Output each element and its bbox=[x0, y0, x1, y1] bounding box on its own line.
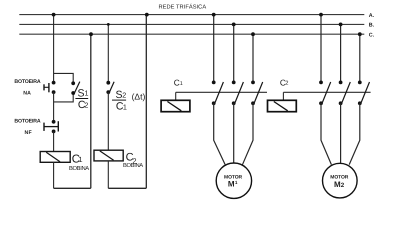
svg-text:BOBINA: BOBINA bbox=[123, 162, 143, 169]
label contactor C1 bbox=[174, 77, 183, 87]
pushbutton NA actuator bbox=[44, 83, 49, 92]
node K2 pole A on bus bbox=[319, 13, 323, 17]
wire K2 pole B to motor bbox=[340, 103, 342, 163]
label BOTOEIRA NF bbox=[14, 119, 40, 136]
node loop1 return on C bbox=[89, 32, 93, 36]
wire loop1 feed from phase A bbox=[53, 15, 55, 83]
phase line C bbox=[19, 33, 364, 35]
node NF top bbox=[52, 120, 56, 124]
svg-text:1: 1 bbox=[78, 155, 82, 164]
node K2 pole C on bus bbox=[358, 32, 362, 36]
wire K2 pole C top bbox=[359, 34, 361, 82]
wire loop1 return to phase C bbox=[90, 34, 92, 188]
coil C1 box bbox=[40, 152, 70, 163]
wire K1 pole A to motor bbox=[214, 103, 226, 165]
wire K1 pole C to motor bbox=[242, 103, 253, 165]
wire NA to NF bbox=[53, 92, 55, 122]
svg-text:2: 2 bbox=[341, 182, 345, 189]
node K1 pole B on bus bbox=[232, 23, 236, 27]
wire S1 branch top bbox=[54, 73, 74, 83]
label MOTOR M1 bbox=[224, 174, 243, 188]
node loop2 return on A bbox=[145, 13, 149, 17]
contact S1 bbox=[71, 81, 80, 95]
contact K2 pole B bbox=[339, 81, 351, 106]
contactor C1 mechanism box bbox=[161, 100, 190, 111]
label C2 BOBINA bbox=[123, 151, 143, 169]
linkage stub C2 bbox=[282, 92, 284, 100]
node loop2 feed on B bbox=[107, 23, 110, 26]
node NA top bbox=[52, 81, 56, 85]
node K2 pole B on bus bbox=[339, 23, 343, 27]
svg-text:M: M bbox=[228, 180, 235, 189]
svg-text:NF: NF bbox=[25, 130, 32, 136]
label BOTOEIRA NA bbox=[14, 79, 40, 97]
svg-text:2: 2 bbox=[84, 101, 88, 110]
wire NF to coil C1 bbox=[53, 131, 55, 151]
contactor C2 mechanism box bbox=[268, 100, 297, 111]
wire loop1 bottom bbox=[54, 187, 91, 189]
pushbutton NF bridge bbox=[44, 121, 58, 131]
contact S2 bbox=[106, 81, 114, 94]
node K1 pole C on bus bbox=[251, 32, 255, 36]
motor M2 bbox=[323, 163, 358, 198]
label S1 over C2 bbox=[75, 87, 88, 111]
wire K2 pole B top bbox=[340, 24, 342, 82]
contact K1 pole C bbox=[251, 81, 263, 106]
node loop1 feed on A bbox=[52, 13, 56, 17]
motor M1 bbox=[216, 163, 251, 198]
svg-text:C.: C. bbox=[369, 32, 375, 38]
svg-text:NA: NA bbox=[23, 90, 31, 96]
wire K2 pole A top bbox=[320, 15, 322, 83]
node NA bottom bbox=[52, 90, 56, 94]
svg-text:(Δt): (Δt) bbox=[132, 92, 146, 102]
svg-text:1: 1 bbox=[235, 180, 238, 185]
wire K2 pole C to motor bbox=[349, 103, 360, 164]
svg-text:1: 1 bbox=[85, 89, 89, 98]
label C1 BOBINA bbox=[69, 154, 89, 172]
wire coil C1 to bottom bbox=[53, 162, 55, 188]
label S2 over C1 bbox=[112, 89, 127, 113]
linkage stub C1 bbox=[175, 92, 177, 100]
svg-text:BOTOEIRA: BOTOEIRA bbox=[14, 79, 40, 85]
svg-text:1: 1 bbox=[180, 81, 183, 87]
node K1 pole A on bus bbox=[212, 13, 216, 17]
svg-text:S: S bbox=[78, 87, 85, 99]
contact K1 pole A bbox=[212, 81, 224, 106]
contact K2 pole A bbox=[319, 81, 331, 106]
wire K2 pole A to motor bbox=[321, 103, 331, 164]
wire K1 pole B top bbox=[233, 24, 235, 82]
label MOTOR M2 bbox=[330, 174, 349, 189]
svg-text:A.: A. bbox=[369, 13, 375, 19]
wire K1 pole A top bbox=[213, 15, 215, 83]
phase line A bbox=[19, 14, 364, 16]
wire S1 branch bottom bbox=[54, 93, 74, 102]
phase line B bbox=[19, 23, 364, 25]
svg-text:B.: B. bbox=[369, 23, 375, 29]
contact K1 pole B bbox=[232, 81, 244, 106]
node NF bottom bbox=[52, 130, 56, 134]
label contactor C2 bbox=[280, 77, 289, 87]
svg-text:REDE TRIFÁSICA: REDE TRIFÁSICA bbox=[159, 3, 207, 10]
wire loop2 feed from phase B bbox=[107, 24, 109, 82]
wire coil C2 to bottom bbox=[107, 161, 109, 188]
contact K2 pole C bbox=[358, 81, 370, 106]
wire loop2 bottom bbox=[108, 187, 146, 189]
wire loop2 return to phase A bbox=[145, 15, 147, 189]
svg-text:2: 2 bbox=[122, 91, 126, 100]
svg-text:2: 2 bbox=[285, 81, 288, 87]
wire S2 to coil C2 bbox=[107, 92, 109, 150]
svg-text:BOTOEIRA: BOTOEIRA bbox=[14, 119, 40, 125]
wire K1 pole C top bbox=[252, 34, 254, 82]
linkage line C2 bbox=[283, 91, 370, 93]
wire K1 pole B to motor bbox=[233, 103, 235, 163]
linkage line C1 bbox=[176, 91, 267, 93]
coil C2 box bbox=[94, 150, 123, 161]
svg-text:1: 1 bbox=[123, 102, 127, 111]
svg-text:BOBINA: BOBINA bbox=[69, 165, 89, 172]
